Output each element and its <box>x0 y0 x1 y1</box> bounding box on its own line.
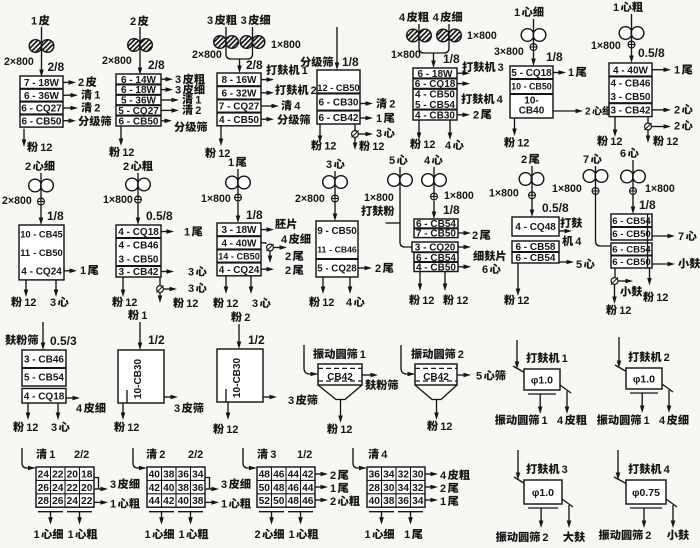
wire into sifter 2Mc <box>137 173 139 200</box>
label 打麸机2 <box>275 84 286 95</box>
wire to 麸粉筛 <box>362 374 373 376</box>
svg-text:CB50: CB50 <box>529 82 552 92</box>
svg-text:42: 42 <box>163 496 175 507</box>
detacher plus <box>332 195 339 202</box>
detacher plus <box>135 196 142 203</box>
svg-text:1/8: 1/8 <box>246 208 263 222</box>
svg-text:-: - <box>227 265 230 276</box>
svg-text:20: 20 <box>67 469 79 480</box>
svg-text:-: - <box>127 267 130 278</box>
label 小麸 <box>620 286 631 296</box>
wire into 粉1 dresser <box>139 322 141 345</box>
svg-text:2×800: 2×800 <box>295 193 325 205</box>
svg-text:-: - <box>524 222 527 233</box>
wire into purifier 清4 <box>353 448 366 468</box>
svg-text:12: 12 <box>317 83 327 93</box>
svg-text:CB42: CB42 <box>333 113 359 124</box>
funnel 振动圆筛1 <box>318 385 362 400</box>
svg-text:2: 2 <box>440 483 446 495</box>
svg-text:CB40: CB40 <box>519 106 545 117</box>
sifter CQ20 box <box>412 242 458 252</box>
svg-text:12: 12 <box>517 295 529 307</box>
label 麸粉筛 <box>5 334 16 345</box>
svg-text:12: 12 <box>226 298 238 310</box>
wire to 2尾 <box>457 114 465 116</box>
wire to 4皮细 <box>66 397 75 399</box>
wire 7M down into lower sifter <box>596 166 612 246</box>
detacher symbol <box>267 244 274 251</box>
label 分级筛 <box>277 114 288 125</box>
svg-text:0.5/8: 0.5/8 <box>638 46 665 60</box>
svg-text:3: 3 <box>119 267 125 278</box>
svg-text:6: 6 <box>22 116 28 127</box>
label 粉12 <box>327 423 338 434</box>
beater chute top-left <box>615 365 629 373</box>
svg-text:12: 12 <box>423 139 435 151</box>
svg-text:CB50: CB50 <box>336 83 360 93</box>
svg-text:1: 1 <box>179 529 185 541</box>
sifter 7M/6M upper <box>611 214 652 240</box>
grading sifter box <box>317 70 360 124</box>
beater label 打麸机3 <box>526 463 537 474</box>
svg-text:-: - <box>227 115 230 126</box>
sifter 3M <box>316 221 358 277</box>
svg-text:-: - <box>230 75 233 86</box>
wire 4B middlings out <box>449 120 451 135</box>
label 粉12 <box>653 135 664 146</box>
svg-text:40: 40 <box>369 496 381 507</box>
inner partition <box>225 389 227 402</box>
svg-text:-: - <box>230 238 233 249</box>
wire purifier to 4皮粗 <box>425 473 433 475</box>
beater label 打麸机1 <box>526 352 537 363</box>
label 清4 <box>281 100 292 111</box>
svg-text:1: 1 <box>221 499 227 511</box>
sifter 1Mf <box>510 66 553 118</box>
svg-text:CQ18: CQ18 <box>133 227 160 238</box>
svg-text:50: 50 <box>273 496 285 507</box>
svg-text:48: 48 <box>273 483 285 494</box>
roller pair 1Mc (smooth) <box>619 27 632 40</box>
roller pair 6M (smooth) <box>621 170 634 183</box>
svg-text:3: 3 <box>110 479 116 491</box>
wire into grading sifter <box>336 27 338 65</box>
svg-text:18W: 18W <box>236 225 257 236</box>
purifier title 清2 <box>146 448 157 459</box>
wire to 分级筛 <box>261 118 269 120</box>
purifier bottom bracket left <box>259 511 284 513</box>
wire detacher flour down <box>354 138 356 146</box>
svg-text:44: 44 <box>288 469 300 480</box>
svg-text:CB50: CB50 <box>429 90 455 101</box>
svg-text:4: 4 <box>346 297 353 309</box>
wire to 2心细 <box>553 110 578 112</box>
svg-text:4: 4 <box>281 234 288 246</box>
wire purifier to 2尾 <box>425 486 433 488</box>
beater chute bottom-right <box>666 499 677 507</box>
svg-text:4: 4 <box>222 238 228 249</box>
wire 3B flour out <box>220 126 222 141</box>
wire to 1尾 <box>553 72 561 74</box>
svg-text:-: - <box>619 92 622 103</box>
svg-text:4: 4 <box>433 12 440 24</box>
svg-text:0.5/8: 0.5/8 <box>146 209 173 223</box>
label 粉12 <box>410 138 421 149</box>
svg-text:12: 12 <box>666 136 678 148</box>
svg-text:2: 2 <box>25 161 31 173</box>
svg-text:4: 4 <box>381 449 388 461</box>
svg-text:-: - <box>621 65 624 76</box>
wire to 3皮细 <box>161 89 168 91</box>
wire down to detacher <box>647 117 649 123</box>
svg-text:2: 2 <box>285 251 291 263</box>
svg-text:4: 4 <box>440 470 447 482</box>
svg-text:12: 12 <box>122 147 134 159</box>
svg-text:1: 1 <box>613 2 619 14</box>
label 细麸片 <box>473 250 484 260</box>
wire 打麸机1 out1 <box>539 394 541 409</box>
svg-text:φ1.0: φ1.0 <box>532 487 554 499</box>
svg-text:12: 12 <box>340 424 352 436</box>
svg-text:40W: 40W <box>236 238 257 249</box>
label 粉12 <box>27 141 38 152</box>
wire into 打麸机1 <box>516 340 518 364</box>
svg-text:3: 3 <box>119 255 125 266</box>
svg-text:26: 26 <box>38 483 50 494</box>
roller pair 3M (smooth) <box>323 176 336 189</box>
wire to detacher <box>261 242 266 244</box>
detacher symbol <box>352 131 359 138</box>
label 胚片 <box>275 219 286 229</box>
wire down to detacher <box>614 268 616 277</box>
svg-text:48: 48 <box>259 469 271 480</box>
svg-text:2: 2 <box>130 16 136 28</box>
wire to 2尾 <box>458 232 466 234</box>
wire to 打麸机3 <box>457 72 465 74</box>
purifier title 清4 <box>368 448 379 459</box>
svg-text:1: 1 <box>514 7 520 19</box>
svg-text:6: 6 <box>319 113 325 124</box>
label 粉12 <box>213 423 224 434</box>
svg-text:2: 2 <box>311 85 317 97</box>
wire to 清4 <box>261 105 274 107</box>
svg-text:44: 44 <box>149 496 161 507</box>
wire detacher flour down <box>159 293 161 299</box>
svg-text:2: 2 <box>78 77 84 89</box>
label 小麸 <box>678 258 689 268</box>
sifter 3B <box>217 73 261 126</box>
svg-text:1×800: 1×800 <box>444 190 474 202</box>
wire 1Mf flour out <box>514 118 516 131</box>
beater body 打麸机4 <box>626 480 666 504</box>
wire into 粉2 dresser <box>238 324 240 344</box>
svg-text:46: 46 <box>288 483 300 494</box>
wire 1B rollers to sifter <box>41 27 43 72</box>
svg-text:4: 4 <box>416 262 422 273</box>
label 分级筛 <box>78 116 89 127</box>
svg-text:1×800: 1×800 <box>645 183 675 195</box>
svg-text:2: 2 <box>330 496 336 508</box>
svg-text:4: 4 <box>24 391 30 402</box>
detacher symbol <box>611 278 618 285</box>
wire 2Mc flour out <box>122 277 124 292</box>
svg-text:3: 3 <box>252 298 258 310</box>
wire into 打麸机3 <box>517 450 519 475</box>
svg-text:2: 2 <box>389 99 395 111</box>
svg-text:2: 2 <box>585 107 591 118</box>
svg-text:-: - <box>33 248 36 258</box>
svg-text:CB50: CB50 <box>233 115 259 126</box>
svg-text:2: 2 <box>159 449 165 461</box>
roller pair 3B fine (fluted) <box>240 36 253 49</box>
wire funnel flour out <box>436 400 438 416</box>
svg-text:46: 46 <box>302 496 314 507</box>
svg-text:1: 1 <box>404 529 410 541</box>
svg-text:14: 14 <box>218 251 229 261</box>
svg-text:6: 6 <box>516 253 522 264</box>
svg-text:3: 3 <box>175 85 181 97</box>
label 打麸机1 <box>266 64 277 75</box>
svg-text:-: - <box>30 104 33 115</box>
wire 麸粉筛 flour out <box>27 403 29 415</box>
svg-text:1: 1 <box>562 353 568 365</box>
svg-text:CB50: CB50 <box>625 92 651 103</box>
svg-text:2/2: 2/2 <box>188 449 203 461</box>
svg-text:34: 34 <box>192 469 204 480</box>
svg-text:-: - <box>231 251 234 261</box>
svg-text:1×800: 1×800 <box>271 39 301 51</box>
svg-text:2: 2 <box>664 352 670 364</box>
wire 2T flour out <box>517 263 519 291</box>
label 粉12 <box>11 296 22 307</box>
svg-text:0.5/3: 0.5/3 <box>50 334 77 348</box>
wire to 清2 <box>161 109 174 111</box>
wire funnel flour out <box>340 400 342 419</box>
sieve body 振动圆筛2 <box>415 364 457 385</box>
purifier grid 清1 <box>36 467 94 507</box>
sifter 1B <box>20 76 63 127</box>
beater chute top-left <box>513 366 527 374</box>
svg-text:3: 3 <box>611 92 617 103</box>
roller pair 1B (fluted) <box>29 40 42 53</box>
svg-text:2: 2 <box>94 103 100 115</box>
wire 粉1 flour out <box>122 403 124 415</box>
svg-text:1×800: 1×800 <box>391 49 421 61</box>
svg-text:6: 6 <box>119 116 125 127</box>
svg-text:9: 9 <box>317 226 323 237</box>
label 机4 line2 <box>562 235 573 246</box>
wire 5M/4M flour out left <box>419 272 421 287</box>
wire into 打麸机2 <box>618 337 620 363</box>
svg-text:6: 6 <box>21 104 27 115</box>
roller pair 2B (fluted) <box>128 39 141 52</box>
svg-text:2×800: 2×800 <box>4 56 34 68</box>
wire merge 4B fine <box>433 24 449 53</box>
detacher plus <box>235 194 242 201</box>
roller pair 4M (smooth) <box>422 174 435 187</box>
svg-text:CB46: CB46 <box>625 79 651 90</box>
wire to 清2 <box>63 107 73 109</box>
svg-text:1: 1 <box>568 67 574 79</box>
wire down to detacher <box>354 124 356 131</box>
svg-text:-: - <box>227 102 230 113</box>
svg-text:3: 3 <box>207 15 213 27</box>
wire 2Mf to 3心 <box>55 280 57 292</box>
wire to 打麸机4 <box>457 83 465 85</box>
label 打麸粉 <box>361 205 372 216</box>
svg-text:42: 42 <box>302 469 314 480</box>
svg-text:48: 48 <box>288 496 300 507</box>
svg-text:-: - <box>524 82 527 92</box>
purifier title 清3 <box>257 448 268 459</box>
svg-text:6: 6 <box>222 88 228 99</box>
svg-text:1: 1 <box>68 529 74 541</box>
label 振动圆筛2 <box>496 531 507 542</box>
svg-text:-: - <box>620 245 623 256</box>
svg-text:5: 5 <box>476 371 482 383</box>
svg-text:1/8: 1/8 <box>443 203 460 217</box>
wire 5M/4M flour out right <box>444 272 446 287</box>
wire 打麸机3 out1 <box>540 508 542 523</box>
svg-text:3: 3 <box>174 403 180 415</box>
svg-text:32: 32 <box>412 483 424 494</box>
svg-text:3: 3 <box>221 479 227 491</box>
svg-text:1/8: 1/8 <box>639 198 656 212</box>
svg-text:CB42: CB42 <box>625 106 651 117</box>
svg-text:CB42: CB42 <box>423 372 449 383</box>
svg-text:3: 3 <box>326 159 332 171</box>
beater label 打麸机4 <box>628 463 639 474</box>
beater underline <box>528 507 558 509</box>
wire 粉2 flour out <box>227 402 229 415</box>
svg-text:36: 36 <box>178 469 190 480</box>
svg-text:1: 1 <box>440 496 446 508</box>
beater body 打麸机2 <box>626 368 662 389</box>
svg-text:-: - <box>620 216 623 227</box>
label 粉12 <box>114 421 125 432</box>
svg-text:1: 1 <box>145 529 151 541</box>
wire to 7心 <box>652 235 670 237</box>
svg-text:-: - <box>127 116 130 127</box>
svg-text:10-CB30: 10-CB30 <box>133 359 144 399</box>
roller pair 7M (smooth) <box>583 170 596 183</box>
wire 打麸机4 out2 <box>672 505 674 523</box>
wire to 2皮 <box>63 81 71 83</box>
svg-text:10: 10 <box>20 230 30 240</box>
svg-text:-: - <box>32 391 35 402</box>
svg-text:6: 6 <box>24 91 30 102</box>
svg-text:2: 2 <box>542 532 548 544</box>
svg-text:12: 12 <box>324 141 336 153</box>
svg-text:1×800: 1×800 <box>201 193 231 205</box>
detacher plus 6M <box>630 188 637 195</box>
wire purifier to 1心粗 <box>94 501 103 503</box>
wire purifier to 2尾 <box>315 473 323 475</box>
svg-text:1: 1 <box>141 310 147 322</box>
svg-text:12: 12 <box>610 136 622 148</box>
svg-text:1×800: 1×800 <box>467 30 497 42</box>
svg-text:CB46: CB46 <box>335 245 357 255</box>
sifter 1Mc <box>609 63 652 117</box>
roller pair 4B fine (fluted) <box>437 29 450 42</box>
svg-text:11: 11 <box>20 248 30 258</box>
svg-text:1×800: 1×800 <box>364 192 394 204</box>
svg-text:0.5/8: 0.5/8 <box>542 201 569 215</box>
svg-text:2: 2 <box>375 263 381 275</box>
wire to 1尾 <box>360 117 368 119</box>
label 粉12 <box>606 304 617 315</box>
svg-text:3: 3 <box>50 297 56 309</box>
svg-text:2: 2 <box>255 529 261 541</box>
svg-text:4: 4 <box>424 155 431 167</box>
sifter 4B <box>413 68 457 120</box>
wire into 打麸机4 <box>617 450 619 475</box>
svg-text:18: 18 <box>81 469 93 480</box>
label 粉12 <box>213 297 224 308</box>
wire into 振动圆筛2 <box>401 345 414 374</box>
svg-text:40: 40 <box>163 483 175 494</box>
svg-text:12: 12 <box>517 138 529 150</box>
detacher plus <box>529 192 536 199</box>
label 粉12 <box>173 297 184 308</box>
svg-text:3: 3 <box>24 355 30 366</box>
svg-text:12: 12 <box>127 422 139 434</box>
inner partition <box>126 390 128 403</box>
svg-text:44: 44 <box>302 483 314 494</box>
wire merge 4B coarse <box>419 24 433 53</box>
wire purifier to 2心粗 <box>315 499 323 501</box>
svg-text:4: 4 <box>445 140 452 152</box>
wire to 2心 upper <box>652 109 666 111</box>
svg-text:18W: 18W <box>38 78 59 89</box>
svg-text:3: 3 <box>51 422 57 434</box>
svg-text:CB50: CB50 <box>237 251 260 261</box>
svg-text:4: 4 <box>515 222 521 233</box>
svg-text:2: 2 <box>473 109 479 121</box>
wire to 打麸机1 <box>261 79 269 81</box>
svg-text:2: 2 <box>674 104 680 116</box>
svg-text:4: 4 <box>497 94 504 106</box>
wire detacher flour down <box>614 285 616 300</box>
sifter 2T upper <box>512 217 559 236</box>
label 清1 <box>81 89 92 100</box>
svg-text:2×800: 2×800 <box>2 195 32 207</box>
svg-text:12: 12 <box>226 424 238 436</box>
svg-text:5: 5 <box>24 373 30 384</box>
label 振动圆筛2 <box>411 348 422 359</box>
svg-text:2: 2 <box>645 530 651 542</box>
svg-text:2/2: 2/2 <box>74 449 89 461</box>
svg-text:-: - <box>127 227 130 238</box>
svg-text:φ0.75: φ0.75 <box>632 487 660 499</box>
wire into 振动圆筛1 <box>304 345 317 374</box>
svg-text:1: 1 <box>644 415 650 427</box>
svg-text:1: 1 <box>365 529 371 541</box>
wire to 分级筛 <box>161 120 167 122</box>
svg-text:12: 12 <box>322 297 334 309</box>
svg-text:26: 26 <box>52 496 64 507</box>
svg-text:38: 38 <box>383 496 395 507</box>
svg-text:2/8: 2/8 <box>246 58 263 72</box>
svg-text:38: 38 <box>192 496 204 507</box>
svg-text:40: 40 <box>178 496 190 507</box>
wire into sifter 1Mf <box>533 19 535 47</box>
svg-text:2: 2 <box>244 312 250 324</box>
wire purifier top-rows hook <box>205 478 210 490</box>
svg-text:24: 24 <box>52 483 64 494</box>
svg-text:4: 4 <box>415 90 421 101</box>
svg-text:1: 1 <box>80 265 86 277</box>
